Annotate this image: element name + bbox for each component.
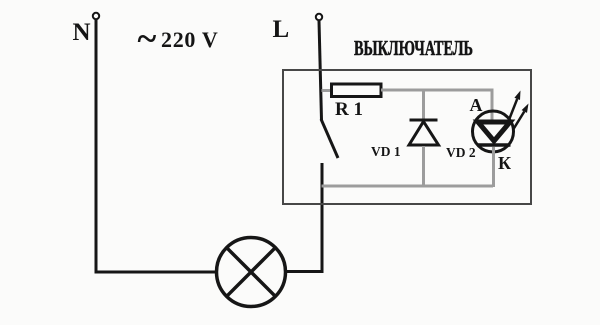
LED VD2 triangle [478,122,510,141]
diode VD1 cathode bar [410,119,438,122]
terminal L [316,14,322,20]
wire N to lamp [95,271,217,274]
LED arrow 2 [514,104,529,130]
resistor R1 [332,84,382,97]
label ~220V [138,19,219,59]
svg-text:L: L [273,16,290,43]
switch SA lever [321,119,338,158]
wire VD1 anode lead [422,90,425,120]
LED arrow 1 [510,91,521,119]
lamp EL circle [217,238,286,307]
diode VD1 triangle [409,122,439,146]
svg-text:VD 2: VD 2 [446,145,476,160]
wire resistor left lead [322,89,333,92]
wire VD2 top lead [491,89,494,122]
svg-text:A: A [470,95,483,115]
wire top horizontal gray [381,89,494,92]
svg-text:R 1: R 1 [335,99,363,120]
svg-text:~: ~ [138,19,157,59]
svg-text:220 V: 220 V [161,27,219,52]
lamp EL cross [226,247,275,296]
wire lamp right horizontal [286,270,324,273]
svg-text:N: N [73,19,91,46]
LED VD2 cathode bar [478,143,511,147]
wire L vertical [319,21,322,120]
switch enclosure box [283,70,531,204]
svg-text:ВЫКЛЮЧАТЕЛЬ: ВЫКЛЮЧАТЕЛЬ [354,36,473,60]
wire switch to lamp vertical [321,163,324,273]
wire bottom horizontal gray [322,185,494,188]
wire VD1 bottom lead [422,146,425,187]
wire VD2 bottom lead [492,147,495,187]
LED VD2 circle [473,111,514,152]
svg-text:VD 1: VD 1 [371,144,401,159]
svg-text:К: К [498,153,511,173]
wire N vertical [95,20,98,274]
terminal N [93,13,99,19]
